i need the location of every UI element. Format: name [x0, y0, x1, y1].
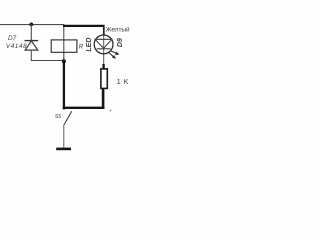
wire: left feed line [0, 24, 64, 26]
LED D9 circle [94, 35, 113, 54]
node A: junction dot on feed line [29, 23, 33, 27]
LED D9 cathode bar [97, 48, 111, 50]
svg-text:S5: S5 [55, 114, 61, 120]
resistor R1 body [101, 69, 107, 89]
wire: resistor bottom lead (thick) [102, 88, 105, 109]
LED light arrow 2 [108, 51, 118, 60]
wire: relay branch vertical (through relay body) [63, 25, 65, 61]
wire: bottom thick bus [63, 107, 105, 109]
node B: junction dot below relay [62, 59, 66, 63]
svg-text:R: R [79, 44, 84, 51]
wire: thick segment below top corner [103, 25, 105, 35]
wire: top thick bus to LED branch [63, 25, 105, 27]
wire: LED branch vertical (corner to resistor) [103, 26, 105, 69]
ground terminal bar [56, 148, 71, 151]
wire: diode bottom lead, down then right to node B [31, 50, 64, 60]
wire: thick tip above resistor [102, 64, 104, 69]
diode D7 (V4148) [25, 41, 39, 51]
relay R coil body [51, 40, 77, 52]
svg-text:D9: D9 [117, 38, 124, 47]
svg-text:Желтый: Желтый [106, 25, 130, 33]
LED D9 triangle [95, 39, 112, 48]
svg-text:V4148: V4148 [6, 43, 27, 50]
wire: left thick vertical from node B [63, 61, 65, 109]
wire: diode top lead [30, 24, 32, 41]
wire: switch bottom lead [63, 125, 65, 149]
svg-text:1 K: 1 K [117, 79, 129, 86]
svg-text:D7: D7 [8, 35, 17, 42]
stray mark near bottom wire end [110, 110, 112, 111]
svg-text:LED: LED [86, 38, 93, 52]
switch S5 lever [64, 111, 72, 125]
LED light arrow 1 [109, 49, 120, 57]
